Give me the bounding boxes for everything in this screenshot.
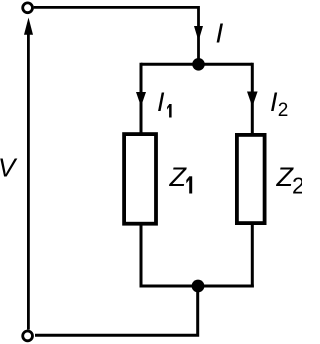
wire right branch lower bbox=[251, 224, 254, 288]
arrowhead of voltage V (up) bbox=[24, 18, 33, 35]
wire right branch upper bbox=[251, 63, 254, 134]
arrowhead of current I1 (down) bbox=[136, 92, 146, 107]
impedance Z1 (box) bbox=[124, 134, 156, 224]
wire V line (left vertical) bbox=[27, 30, 30, 330]
wire top from T1 to corner bbox=[34, 7, 199, 64]
impedance Z2 (box) bbox=[237, 135, 265, 223]
svg-text:I: I bbox=[216, 18, 224, 49]
arrowhead of current I (down) bbox=[194, 26, 203, 41]
svg-text:2: 2 bbox=[278, 100, 289, 121]
wire left branch lower bbox=[140, 225, 143, 288]
svg-text:V: V bbox=[0, 153, 18, 183]
svg-text:I: I bbox=[157, 87, 165, 117]
svg-text:2: 2 bbox=[292, 173, 302, 199]
wire from J2 down to bottom rail bbox=[35, 286, 198, 335]
node junction J1 (top) bbox=[192, 58, 205, 71]
terminal T2 (bottom-left) bbox=[23, 331, 33, 341]
arrowhead of current I2 (down) bbox=[247, 92, 258, 107]
svg-text:Z: Z bbox=[169, 162, 188, 192]
node junction J2 (bottom) bbox=[192, 280, 205, 293]
wire left branch upper bbox=[140, 63, 143, 133]
wire bottom bus bbox=[140, 285, 254, 288]
wire top bus bbox=[141, 63, 252, 66]
terminal T1 (top-left) bbox=[23, 3, 33, 13]
svg-text:I: I bbox=[270, 87, 278, 117]
